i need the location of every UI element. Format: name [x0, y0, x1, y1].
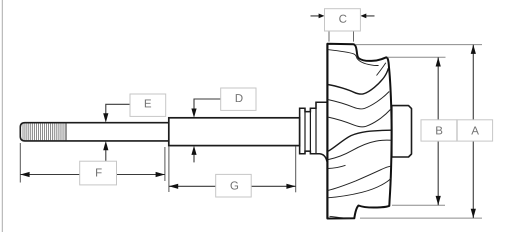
dimension G left arrowhead [169, 184, 178, 189]
dimension C extension lines [329, 31, 354, 41]
dimension F right arrowhead [156, 172, 165, 177]
dimension B top arrowhead [436, 57, 441, 66]
dimension G right extension line [295, 147, 297, 193]
dimension C right arrowhead [360, 14, 366, 19]
dimension E label box [130, 94, 166, 116]
dimension D leader line [194, 99, 221, 109]
blade line B4 [328, 178, 391, 198]
dimension D letter [236, 94, 243, 102]
blade line B3 [328, 166, 391, 190]
dimension C left arrowhead [319, 14, 325, 19]
blade line B2 [328, 140, 392, 160]
wheel back face line [326, 44, 328, 219]
dimension A bottom arrowhead [471, 209, 476, 218]
dimension C arrow lines [311, 15, 375, 17]
dimension A bottom extension line [360, 217, 482, 219]
dimension B letter [436, 126, 442, 134]
collar groove inner edges [305, 112, 310, 152]
shaft large diameter (journal) [169, 118, 300, 146]
collar groove side edges [300, 102, 316, 154]
blade line T1 [328, 50, 379, 66]
blade line T4 [328, 110, 391, 127]
blade line T2b [377, 63, 386, 76]
dimension G label box [216, 174, 252, 197]
dimension D label box [221, 88, 256, 110]
blade line B2b short [328, 165, 346, 168]
dimension B top extension line [388, 56, 446, 58]
drawing frame border line [1, 0, 3, 232]
dimension F right extension line [164, 147, 166, 181]
turbine wheel outline [327, 44, 391, 219]
dimension A label box [457, 120, 492, 141]
dimension F left extension line [19, 143, 21, 183]
blade line B5 bottom bevel [330, 216, 351, 218]
shaft small diameter (threaded stub shaft) [20, 123, 169, 141]
dimension E letter [145, 99, 151, 107]
dimension G letter [231, 181, 239, 189]
dimension B bottom arrowhead [436, 196, 441, 205]
dimension G line [169, 185, 296, 187]
dimension G left extension line [168, 146, 170, 192]
dimension D top arrowhead [191, 109, 196, 118]
blade line B1 [328, 130, 391, 151]
dimension B bottom extension line [392, 204, 445, 206]
thread hatching [23, 123, 66, 141]
dimension A letter [471, 127, 479, 135]
dimension E bottom arrowhead [103, 141, 108, 150]
thread end line [65, 123, 67, 141]
dimension D bottom tail [193, 155, 195, 163]
seal collar with piston-ring groove [300, 102, 328, 161]
dimension F letter [96, 169, 102, 177]
turbine wheel nose stub [392, 106, 412, 157]
dimension A top extension line [356, 44, 482, 46]
dimension F left arrowhead [20, 172, 29, 177]
dimension D bottom arrowhead [191, 146, 196, 155]
dimension F label box [80, 161, 117, 185]
dimension E bottom tail [105, 150, 107, 161]
dimension A top arrowhead [471, 45, 476, 54]
dimension G right arrowhead [286, 184, 295, 189]
dimension A vertical line [472, 45, 474, 219]
dimension C letter [339, 15, 346, 23]
dimension F line [20, 174, 165, 176]
dimension B label box [421, 120, 457, 141]
dimension E leader line [106, 104, 130, 113]
blade line T3 [328, 92, 390, 109]
dimension B vertical line [437, 57, 439, 205]
dimension E top arrowhead [103, 113, 108, 122]
dimension C label box [325, 9, 361, 31]
blade line T2 [328, 68, 389, 94]
